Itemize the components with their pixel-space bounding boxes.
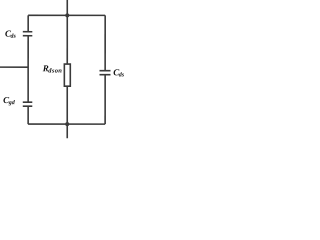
resistor Rdson body bbox=[64, 64, 70, 86]
wire middle lower segment bbox=[66, 86, 68, 124]
svg-text:Cgd: Cgd bbox=[3, 95, 16, 106]
capacitor Cgd plates (bottom-left) bbox=[23, 102, 33, 106]
node junction dot top bbox=[65, 13, 69, 17]
svg-text:Cds: Cds bbox=[113, 67, 125, 78]
wire middle upper segment bbox=[66, 15, 68, 64]
wire left lower segment bbox=[27, 106, 29, 124]
wire bottom rail bbox=[28, 123, 105, 125]
wire right lower segment bbox=[104, 75, 106, 124]
svg-text:Rdson: Rdson bbox=[42, 63, 62, 74]
wire right upper segment bbox=[104, 15, 106, 70]
node junction dot bottom bbox=[65, 122, 69, 126]
capacitor Cds plates (top-left) bbox=[23, 32, 33, 36]
wire bottom stem (source lead) bbox=[66, 124, 68, 138]
capacitor Cds plates (right) bbox=[99, 71, 110, 75]
wire gate lead (left horizontal) bbox=[0, 66, 28, 68]
wire top stem (drain lead) bbox=[66, 0, 68, 15]
wire left upper segment bbox=[27, 15, 29, 31]
svg-text:Cds: Cds bbox=[5, 28, 17, 39]
wire left middle segment bbox=[27, 36, 29, 102]
wire top rail bbox=[28, 14, 105, 16]
